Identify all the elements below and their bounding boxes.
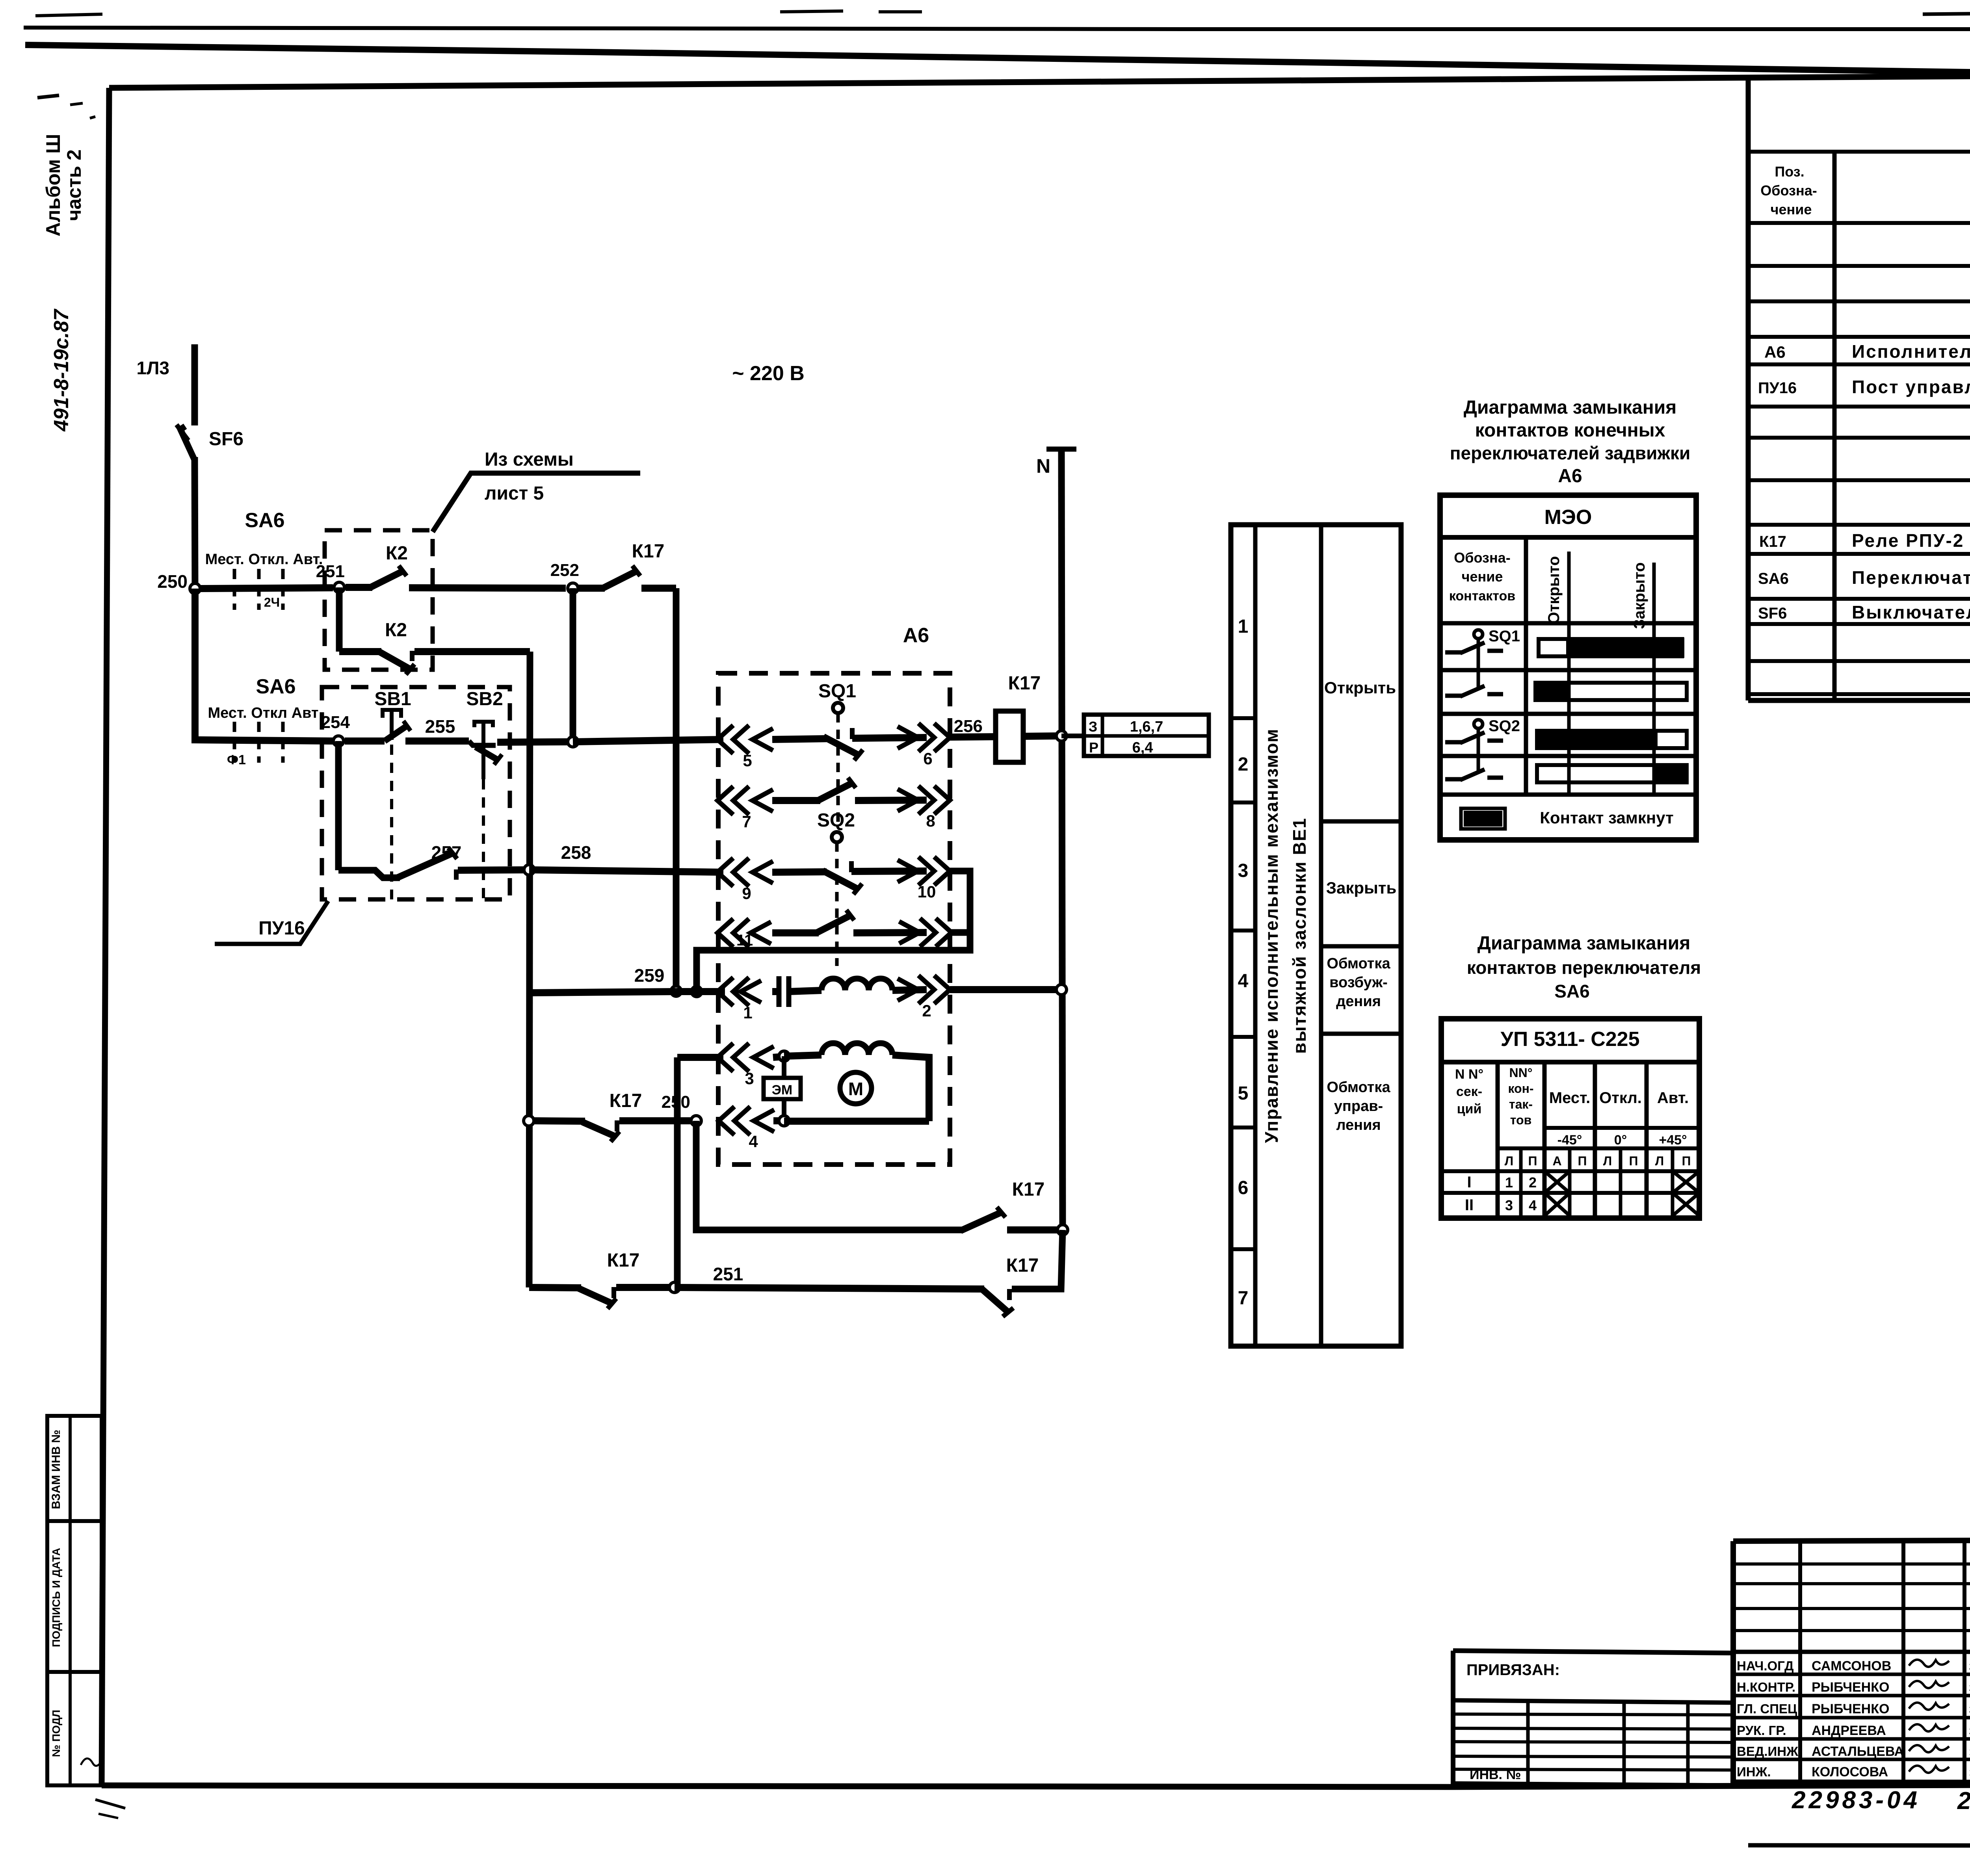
svg-text:ций: ций: [1457, 1101, 1482, 1116]
wire coil K17 to N: [1023, 736, 1061, 736]
wire pin2 to N: [950, 986, 1061, 993]
node title block frame: [1733, 1539, 1970, 1541]
wire pin11 to SQ2 lower contact: [772, 929, 819, 936]
breaker SF6: [180, 426, 195, 460]
svg-text:Мест. Откл. Авт.: Мест. Откл. Авт.: [205, 551, 323, 568]
svg-text:+45°: +45°: [1659, 1133, 1687, 1148]
node element list table: [1746, 78, 1751, 700]
svg-text:Обозна-: Обозна-: [1760, 182, 1817, 199]
svg-text:САМСОНОВ: САМСОНОВ: [1812, 1659, 1891, 1674]
svg-text:Поз.: Поз.: [1775, 163, 1804, 180]
node control-function table: [1231, 525, 1401, 1346]
svg-text:М: М: [848, 1079, 863, 1099]
node X marks row II: [1544, 1193, 1570, 1216]
svg-text:сек-: сек-: [1456, 1084, 1482, 1099]
svg-text:29: 29: [1957, 1787, 1970, 1815]
svg-text:SB1: SB1: [374, 689, 411, 710]
wire top border broken dashes: [780, 11, 843, 12]
svg-text:SQ1: SQ1: [1489, 628, 1520, 645]
svg-text:Выключатель А63-МУЗ Iр 6,3 А: Выключатель А63-МУЗ Iр 6,3 А Iотс1,5 Iр: [1852, 602, 1970, 622]
svg-text:SА6: SА6: [1554, 981, 1589, 1001]
wire pin6 to relay coil K17: [950, 737, 996, 737]
svg-text:К17: К17: [607, 1250, 640, 1271]
svg-text:Обмотка: Обмотка: [1327, 1079, 1390, 1096]
svg-text:Мест. Откл Авт: Мест. Откл Авт: [208, 705, 318, 721]
svg-text:Диаграмма замыкания: Диаграмма замыкания: [1477, 933, 1690, 954]
svg-text:дения: дения: [1336, 993, 1381, 1010]
svg-text:НАЧ.ОГД: НАЧ.ОГД: [1737, 1659, 1794, 1673]
wire K2 to node 252: [409, 588, 566, 588]
wire pin1 to capacitor: [772, 988, 777, 995]
svg-text:251: 251: [713, 1264, 743, 1284]
svg-text:256: 256: [954, 717, 983, 736]
wire top border thick line: [25, 45, 1970, 73]
svg-text:Переключатель УП 5311-С225: Переключатель УП 5311-С225: [1852, 567, 1970, 588]
wire node 251 down to K2 second contact: [336, 587, 343, 652]
svg-text:МЭО: МЭО: [1544, 506, 1592, 529]
svg-text:тов: тов: [1510, 1113, 1531, 1127]
node closure bar row1: [1539, 639, 1682, 656]
svg-text:Мест.: Мест.: [1549, 1089, 1590, 1107]
switch SA6 lower position ticks: [233, 722, 236, 763]
node privyazan box: [1453, 1651, 1733, 1653]
connector pin 8: [934, 786, 950, 814]
node K2 dashed enclosure: [325, 530, 433, 670]
node closure bar row4: [1537, 765, 1687, 782]
wire node 252 down to row 254: [570, 588, 576, 742]
svg-text:NN°: NN°: [1509, 1066, 1532, 1080]
svg-text:ПОДПИСЬ И ДАТА: ПОДПИСЬ И ДАТА: [50, 1548, 62, 1647]
wire motor bottom: [784, 1118, 929, 1125]
svg-text:вытяжной заслонки ВЕ1: вытяжной заслонки ВЕ1: [1289, 817, 1310, 1054]
switch SQ1 glyph row2: [1445, 694, 1463, 698]
svg-text:А6: А6: [1764, 343, 1786, 361]
svg-text:контактов переключателя: контактов переключателя: [1467, 957, 1701, 978]
svg-text:SA6: SA6: [1758, 570, 1789, 587]
svg-text:кон-: кон-: [1508, 1081, 1533, 1096]
connector pin 6: [934, 723, 950, 752]
svg-text:I: I: [1467, 1174, 1471, 1191]
wire drawing frame top edge: [109, 76, 1970, 88]
node from-sheet-5 pointer: [433, 473, 640, 532]
svg-text:N: N: [1036, 455, 1050, 477]
wire sheet lower trim line: [1748, 1845, 1970, 1846]
contact SQ2 upper (closed): [823, 871, 857, 889]
svg-text:ПУ16: ПУ16: [258, 918, 305, 939]
node scan mark bottom-left: [95, 1800, 125, 1808]
svg-text:Пост управления ПКЕ-222-2 УЗ: Пост управления ПКЕ-222-2 УЗ: [1852, 377, 1970, 397]
svg-text:7: 7: [1238, 1288, 1249, 1309]
svg-text:0°: 0°: [1614, 1133, 1627, 1148]
svg-text:А: А: [1552, 1154, 1561, 1168]
svg-text:3: 3: [1505, 1197, 1513, 1213]
svg-text:9: 9: [742, 884, 751, 903]
svg-text:часть 2: часть 2: [63, 149, 85, 221]
svg-text:SQ2: SQ2: [817, 810, 855, 831]
svg-text:1: 1: [1238, 616, 1249, 637]
svg-text:SA6: SA6: [256, 675, 295, 698]
svg-text:Л: Л: [1505, 1154, 1513, 1168]
inductor control winding (obmotka upravleniya): [784, 1055, 821, 1056]
contact SQ2 lower (open): [816, 916, 850, 933]
svg-text:11: 11: [736, 932, 753, 949]
motor M: [840, 1072, 872, 1104]
wire N vertical: [1061, 449, 1063, 1230]
svg-text:К17: К17: [1008, 673, 1041, 694]
svg-text:К17: К17: [1006, 1255, 1039, 1276]
svg-text:2Ч: 2Ч: [264, 595, 280, 609]
svg-text:1: 1: [1505, 1174, 1513, 1191]
svg-text:SA6: SA6: [245, 509, 284, 532]
wire pin9 to SQ2 contact: [772, 872, 827, 872]
svg-text:З: З: [1089, 719, 1098, 735]
wire K17 contact to right corner: [641, 585, 676, 592]
svg-text:возбуж-: возбуж-: [1329, 974, 1388, 991]
wire capacitor to field winding: [789, 990, 821, 992]
electromagnet EM box: [782, 1056, 786, 1078]
wire 257 to junction 258: [458, 870, 529, 870]
svg-text:6: 6: [1238, 1178, 1249, 1198]
svg-text:ЭМ: ЭМ: [772, 1083, 793, 1098]
svg-text:АНДРЕЕВА: АНДРЕЕВА: [1812, 1723, 1886, 1738]
inductor field winding (obmotka vozbuzhdeniya): [821, 979, 892, 990]
svg-text:-45°: -45°: [1557, 1133, 1582, 1148]
wire pin10 loop to 259: [697, 871, 970, 992]
svg-text:К2: К2: [385, 620, 407, 641]
capacitor (phase-shift): [777, 976, 782, 1007]
svg-text:Обозна-: Обозна-: [1454, 550, 1510, 566]
wire drawing frame bottom edge: [102, 1783, 1970, 1787]
svg-text:252: 252: [550, 561, 579, 580]
svg-text:Открыть: Открыть: [1324, 678, 1396, 697]
connector pin 7: [717, 786, 733, 815]
svg-text:чение: чение: [1462, 568, 1503, 585]
connector pin 5: [717, 725, 733, 754]
svg-text:ПУ16: ПУ16: [1758, 379, 1797, 397]
wire winding to pin 2: [892, 990, 927, 990]
wire node250 down to K17 mid row: [696, 1121, 963, 1230]
svg-text:чение: чение: [1771, 201, 1812, 217]
node scan specks top-left: [37, 95, 59, 98]
wire K2 second contact to corner: [414, 648, 530, 655]
node SA6 table: [1441, 1019, 1699, 1218]
svg-text:SF6: SF6: [209, 429, 243, 449]
wire to node 251 bottom: [616, 1284, 672, 1291]
svg-text:4: 4: [1529, 1197, 1537, 1213]
node PU16 dashed enclosure: [322, 687, 510, 899]
switch SQ2 glyph row3: [1474, 720, 1483, 728]
node left stamp table: [47, 1416, 102, 1785]
connector pin 11: [717, 919, 733, 947]
svg-text:К17: К17: [1012, 1179, 1045, 1200]
node title block left grid: [1798, 1541, 1802, 1782]
wire 258 to pin 9: [529, 870, 723, 872]
contact SQ1 lower (open): [818, 783, 852, 801]
svg-text:РУК. ГР.: РУК. ГР.: [1737, 1723, 1786, 1738]
svg-text:Управление исполнительным ме: Управление исполнительным механизмом: [1261, 728, 1282, 1143]
svg-text:SF6: SF6: [1758, 605, 1787, 622]
switch SQ2 glyph row4: [1445, 777, 1463, 782]
svg-text:П: П: [1578, 1154, 1587, 1168]
svg-text:управ-: управ-: [1334, 1098, 1383, 1114]
svg-text:ИНВ. №: ИНВ. №: [1470, 1767, 1521, 1782]
svg-text:РЫБЧЕНКО: РЫБЧЕНКО: [1812, 1680, 1889, 1695]
wire bottom row to N loop: [1012, 1230, 1063, 1289]
svg-text:контактов: контактов: [1449, 589, 1515, 604]
svg-text:251: 251: [316, 562, 345, 581]
svg-text:А6: А6: [1558, 466, 1582, 487]
svg-text:SB2: SB2: [466, 689, 503, 710]
svg-text:лист 5: лист 5: [485, 483, 544, 504]
svg-text:Диаграмма замыкания: Диаграмма замыкания: [1464, 397, 1676, 418]
svg-text:5: 5: [1238, 1083, 1249, 1104]
wire row 250 to node 251: [201, 588, 333, 589]
wire K17 to node 250 lower: [619, 1117, 693, 1124]
svg-text:ления: ления: [1336, 1117, 1381, 1133]
wire bottom row long: [675, 1287, 984, 1289]
wire SB2 dashed stem: [482, 779, 485, 899]
svg-text:К17: К17: [610, 1090, 642, 1111]
svg-text:П: П: [1629, 1154, 1638, 1168]
svg-text:К17: К17: [632, 541, 665, 562]
wire pin7 to SQ1 lower contact: [772, 797, 820, 804]
svg-text:1Л3: 1Л3: [137, 358, 169, 378]
svg-text:Р: Р: [1089, 739, 1098, 756]
svg-text:250: 250: [662, 1092, 690, 1112]
svg-text:SQ1: SQ1: [818, 681, 856, 702]
svg-text:491-8-19c.87: 491-8-19c.87: [50, 308, 73, 431]
wire K17 mid to N bottom junction: [1007, 1226, 1063, 1233]
connector pin 11 right: [936, 918, 952, 947]
svg-text:КОЛОСОВА: КОЛОСОВА: [1812, 1765, 1888, 1779]
wire row 259 left corner: [530, 992, 676, 993]
wire drawing frame left edge: [102, 88, 109, 1785]
svg-text:4: 4: [1238, 971, 1249, 992]
svg-text:258: 258: [561, 842, 591, 863]
svg-text:3: 3: [1238, 860, 1249, 881]
wire SQ1 lower to pin 8: [855, 800, 927, 801]
svg-text:8: 8: [926, 812, 935, 830]
connector pin 2: [934, 975, 950, 1004]
wire node 250 down to row 254: [195, 589, 333, 741]
connector pin 9: [717, 858, 733, 886]
svg-text:7: 7: [742, 812, 751, 831]
wire vertical 1345 down through 258 to bottom: [529, 652, 530, 1287]
svg-text:1: 1: [743, 1003, 752, 1022]
svg-text:АСТАЛЬЦЕВА: АСТАЛЬЦЕВА: [1812, 1744, 1904, 1759]
node MEO reference lines: [1567, 552, 1571, 793]
svg-text:Ф1: Ф1: [227, 752, 246, 767]
svg-text:Обмотка: Обмотка: [1327, 955, 1390, 972]
svg-text:контактов конечных: контактов конечных: [1475, 420, 1665, 441]
svg-text:ИНЖ.: ИНЖ.: [1737, 1765, 1771, 1779]
svg-text:УП 5311- С225: УП 5311- С225: [1500, 1028, 1639, 1051]
svg-text:Откл.: Откл.: [1599, 1089, 1642, 1107]
svg-text:ГЛ. СПЕЦ: ГЛ. СПЕЦ: [1737, 1701, 1797, 1716]
connector pin 3: [717, 1043, 733, 1072]
wire SQ2 to pin 10: [851, 871, 927, 871]
svg-text:1,6,7: 1,6,7: [1130, 719, 1163, 735]
wire vertical from row 250 down to node 259: [673, 588, 680, 991]
connector pin 1: [717, 977, 733, 1006]
node MEO table: [1440, 495, 1696, 840]
svg-text:255: 255: [425, 716, 455, 737]
svg-text:переключателей задвижки: переключателей задвижки: [1450, 443, 1691, 463]
svg-text:Закрыто: Закрыто: [1631, 562, 1648, 629]
svg-text:так-: так-: [1509, 1097, 1533, 1111]
svg-text:К2: К2: [386, 543, 408, 564]
svg-text:6,4: 6,4: [1132, 739, 1153, 756]
svg-text:2: 2: [1529, 1174, 1537, 1191]
svg-text:Исполнительный механизм МЭО-: Исполнительный механизм МЭО-4/6,3-0,63 И…: [1852, 341, 1970, 362]
svg-text:5: 5: [743, 751, 752, 770]
svg-text:ПРИВЯЗАН:: ПРИВЯЗАН:: [1466, 1661, 1560, 1679]
node row4 left junction: [524, 1116, 534, 1126]
wire row 254 to pin 5: [497, 742, 573, 742]
wire winding to motor loop: [892, 1055, 929, 1121]
svg-text:Закрыть: Закрыть: [1326, 879, 1397, 897]
switch SQ1 glyph row1: [1474, 630, 1483, 639]
wire 255 segment: [405, 737, 469, 745]
connector pin 10: [934, 857, 950, 885]
node legend closed-contact: [1464, 811, 1502, 827]
node wire address box: [1061, 734, 1084, 738]
svg-text:Альбом Ш: Альбом Ш: [42, 134, 64, 237]
svg-text:SQ2: SQ2: [1489, 717, 1520, 735]
svg-text:ВЕД.ИНЖ: ВЕД.ИНЖ: [1737, 1744, 1798, 1759]
wire SQ2 lower to loop: [853, 932, 927, 933]
svg-text:250: 250: [157, 571, 188, 592]
wire SF6 to node 250: [195, 457, 195, 589]
wire pin5 to SQ1 contact: [772, 739, 827, 739]
svg-text:Реле РПУ-2 - М36.440 УЗБ И: Реле РПУ-2 - М36.440 УЗБ И~220 В: [1852, 530, 1970, 551]
svg-text:22983-04: 22983-04: [1792, 1787, 1920, 1814]
svg-text:10: 10: [918, 882, 936, 901]
svg-text:Открыто: Открыто: [1545, 556, 1563, 624]
node closure bar row3: [1537, 731, 1687, 748]
svg-text:Л: Л: [1603, 1154, 1612, 1168]
svg-text:РЫБЧЕНКО: РЫБЧЕНКО: [1812, 1701, 1889, 1716]
svg-text:Л: Л: [1655, 1154, 1664, 1168]
svg-text:Контакт замкнут: Контакт замкнут: [1540, 808, 1673, 827]
wire top border thin line: [24, 28, 1970, 29]
svg-text:№ ПОДЛ: № ПОДЛ: [50, 1710, 62, 1757]
svg-text:~ 220 В: ~ 220 В: [732, 362, 805, 385]
svg-text:Н.КОНТР.: Н.КОНТР.: [1737, 1680, 1795, 1694]
svg-text:А6: А6: [903, 624, 929, 647]
svg-text:6: 6: [923, 749, 932, 768]
node stamp handwriting: [81, 1759, 102, 1766]
node closure bar row2: [1535, 683, 1687, 700]
svg-text:ВЗАМ ИНВ №: ВЗАМ ИНВ №: [50, 1430, 63, 1509]
wire pin4 to EM junction: [773, 1117, 784, 1124]
svg-text:Авт.: Авт.: [1657, 1089, 1689, 1107]
switch SA6 upper position ticks: [233, 569, 236, 610]
connector pin 4: [719, 1107, 734, 1135]
svg-text:2: 2: [1238, 754, 1249, 775]
svg-text:254: 254: [321, 713, 350, 732]
svg-text:П: П: [1528, 1154, 1537, 1168]
svg-text:N N°: N N°: [1455, 1067, 1483, 1082]
svg-text:4: 4: [749, 1132, 758, 1151]
node X marks row I: [1544, 1171, 1570, 1193]
wire feeder stub from 1L3: [191, 344, 198, 425]
svg-text:II: II: [1465, 1196, 1474, 1214]
wire SB1 dashed stem: [390, 745, 393, 899]
wire SQ1 to pin 6: [852, 737, 927, 738]
svg-text:К17: К17: [1759, 533, 1786, 550]
svg-text:П: П: [1682, 1154, 1691, 1168]
svg-text:2: 2: [922, 1001, 931, 1020]
svg-text:259: 259: [634, 965, 665, 986]
wire node 254 down to 257 row: [335, 741, 342, 870]
svg-text:Из схемы: Из схемы: [485, 449, 574, 470]
wire pin3 to junction: [773, 1057, 784, 1057]
wire row3 corner from vertical: [674, 1057, 681, 1287]
svg-text:3: 3: [745, 1069, 754, 1088]
